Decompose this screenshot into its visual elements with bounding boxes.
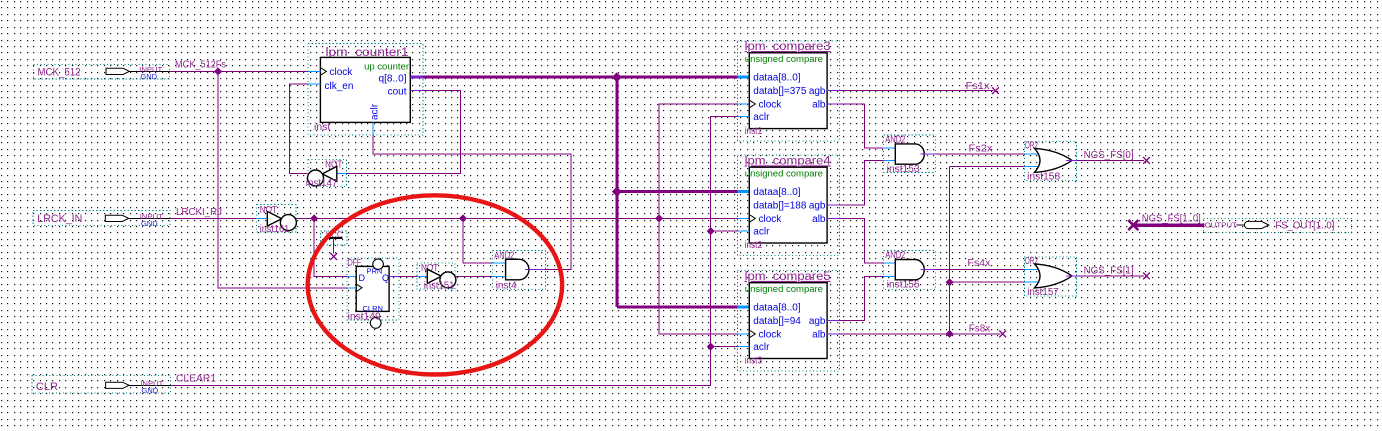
dangling x below VCC (330, 253, 337, 260)
wire to compare5 aclr (711, 346, 738, 348)
wire cout to NOT inst147 input (346, 90, 460, 173)
wire CLEAR1 (171, 117, 738, 386)
svg-text:NGS_FS[1]: NGS_FS[1] (1084, 266, 1134, 277)
svg-text:LRCK_IN: LRCK_IN (37, 213, 82, 225)
wire compare5 agb to AND155 in2 (839, 276, 883, 320)
svg-text:clk_en: clk_en (325, 81, 354, 92)
bus junction top (612, 72, 622, 82)
wire LRCKI_RJ to compare4 clock (296, 217, 737, 219)
svg-text:lpm_compare3: lpm_compare3 (745, 41, 831, 53)
wire Fs8x from compare5 alb (839, 333, 1000, 335)
svg-text:inst1: inst1 (745, 126, 763, 137)
input pin CLR (32, 375, 171, 393)
bus junction middle (612, 187, 622, 197)
AND2 gate inst153 (884, 135, 936, 172)
OR2 gate inst158 (1024, 141, 1076, 180)
output pin FS_OUT[1..0] (1203, 218, 1351, 232)
svg-text:CLR: CLR (36, 381, 58, 393)
wire compare4 agb to AND153 in2 (839, 160, 883, 205)
compare4 clock stub (738, 217, 750, 219)
svg-text:aclr: aclr (753, 112, 770, 123)
lpm_compare4 inst2 (737, 155, 839, 255)
svg-text:Fs2x: Fs2x (969, 144, 993, 155)
svg-text:aclr: aclr (753, 342, 770, 353)
svg-text:clock: clock (759, 99, 783, 110)
wire from MCK junction down to DFF clock (218, 71, 347, 287)
wire Fs8x up to OR gates (949, 167, 951, 334)
compare4 dataa stub (738, 190, 750, 193)
wire to AND inst4 upper input (463, 218, 493, 263)
input pin LRCK_IN (33, 210, 170, 225)
svg-text:inst158: inst158 (1027, 172, 1060, 183)
svg-text:inst2: inst2 (745, 240, 763, 251)
lpm_compare3 inst1 (737, 41, 839, 141)
svg-text:unsigned compare: unsigned compare (745, 54, 823, 65)
wire NOT151 to AND inst4 lower input (456, 275, 493, 277)
compare3 dataa stub (738, 76, 750, 79)
svg-text:MCK_512: MCK_512 (38, 67, 81, 79)
svg-text:Fs4x: Fs4x (967, 258, 990, 269)
svg-text:inst157: inst157 (1027, 287, 1059, 298)
svg-text:GND: GND (140, 72, 157, 81)
red ellipse annotation (308, 195, 562, 374)
counter cout output stub (410, 89, 423, 91)
svg-text:inst: inst (314, 122, 331, 133)
wire to compare4 aclr (711, 230, 738, 232)
svg-text:dataa[8..0]: dataa[8..0] (753, 73, 800, 84)
svg-text:unsigned compare: unsigned compare (745, 169, 823, 180)
junction OR157 branch (946, 278, 954, 286)
bus branch to compare5 dataa (617, 306, 738, 309)
wire NGS_FS[1] (1077, 275, 1145, 277)
OR2 gate inst157 (1024, 257, 1076, 296)
counter clk_en stub (308, 83, 320, 85)
counter q output stub (410, 76, 423, 79)
wire Fs4x (935, 269, 1024, 271)
svg-text:q[8..0]: q[8..0] (379, 74, 407, 85)
junction CLEAR at compare4 aclr (707, 227, 715, 235)
svg-text:PRN: PRN (367, 267, 383, 276)
dangling x Fs1x (992, 87, 999, 94)
svg-text:up counter: up counter (364, 62, 409, 73)
svg-text:inst4: inst4 (496, 281, 517, 292)
counter clock stub (308, 70, 320, 72)
svg-text:clock: clock (759, 329, 783, 340)
svg-text:inst3: inst3 (745, 356, 763, 367)
wire NGS_FS[0] (1077, 159, 1145, 161)
wire to OR157 in2 (950, 281, 1025, 283)
D flip-flop inst149 (347, 258, 399, 320)
bus branch to compare4 dataa (617, 190, 738, 193)
svg-text:alb: alb (812, 214, 826, 225)
wire LRCK to NOT inst161 (170, 217, 256, 219)
svg-text:inst161: inst161 (260, 224, 290, 235)
wire Fs1x from compare3 agb (839, 90, 993, 92)
svg-text:aclr: aclr (370, 103, 381, 120)
svg-text:dataa[8..0]: dataa[8..0] (753, 303, 800, 314)
svg-text:agb: agb (809, 86, 826, 97)
svg-text:alb: alb (812, 329, 826, 340)
svg-text:inst151: inst151 (424, 281, 455, 292)
svg-text:cout: cout (388, 86, 407, 97)
svg-text:FS_OUT[1..0]: FS_OUT[1..0] (1275, 219, 1334, 231)
NOT gate inst161 (257, 205, 297, 232)
svg-text:inst153: inst153 (887, 164, 920, 175)
compare3 clock stub (738, 103, 750, 105)
wire to compare3 clock (659, 104, 737, 218)
wire to compare5 clock (659, 218, 737, 334)
wire Fs2x (935, 153, 1024, 155)
svg-text:unsigned compare: unsigned compare (745, 284, 823, 295)
svg-text:GND: GND (142, 386, 159, 395)
svg-text:inst147: inst147 (306, 178, 338, 189)
dangling x NGS_FS[0] (1143, 157, 1150, 164)
svg-text:D: D (359, 273, 366, 283)
compare5 clock stub (738, 333, 750, 335)
wire DFF Q to NOT inst151 (399, 275, 417, 277)
bus q[8..0] to compare3 dataa (423, 76, 738, 79)
wire to DFF D input (314, 218, 347, 276)
junction LRCK at DFF branch (310, 214, 318, 222)
svg-text:Fs1x: Fs1x (966, 81, 990, 92)
dangling x Fs8x (999, 331, 1006, 338)
counter aclr stub (372, 122, 374, 135)
input pin MCK_512 (33, 65, 169, 79)
lpm_counter U inst (308, 44, 423, 136)
svg-text:LRCKI_RJ: LRCKI_RJ (176, 207, 222, 218)
svg-text:NGS_FS[0]: NGS_FS[0] (1084, 150, 1134, 161)
svg-text:dataa[8..0]: dataa[8..0] (753, 187, 800, 198)
svg-text:Fs8x: Fs8x (969, 324, 991, 335)
svg-text:agb: agb (809, 316, 826, 327)
svg-text:alb: alb (812, 99, 826, 110)
svg-text:aclr: aclr (753, 227, 770, 238)
compare3 aclr stub wire (738, 116, 750, 118)
wire counter aclr to AND inst4 output (373, 135, 571, 269)
wire to OR158 in2 (950, 166, 1025, 168)
wire compare3 alb to AND153 in1 (839, 104, 883, 148)
svg-text:clock: clock (330, 67, 354, 78)
bus vertical segment (615, 77, 618, 307)
svg-text:datab[]=94: datab[]=94 (753, 316, 801, 327)
wire compare4 alb to AND155 in1 (839, 218, 883, 263)
svg-text:datab[]=375: datab[]=375 (753, 86, 807, 97)
NOT gate inst147 (mirrored) (308, 160, 347, 187)
AND2 gate inst4 (493, 251, 546, 290)
junction LRCK at compare clock branch (655, 214, 663, 222)
svg-text:Q: Q (382, 273, 389, 283)
dangling x NGS_FS[1] (1143, 273, 1150, 280)
NOT gate inst151 (417, 263, 455, 289)
wire MCK_512Fs (169, 70, 308, 72)
svg-text:clock: clock (759, 214, 783, 225)
bus NGS_FS[1..0] to output pin (1128, 220, 1138, 230)
junction LRCK at AND4 branch (459, 214, 467, 222)
AND2 gate inst155 (884, 251, 936, 290)
svg-text:agb: agb (809, 201, 826, 212)
svg-text:GND: GND (141, 219, 158, 228)
svg-text:lpm_compare4: lpm_compare4 (745, 155, 832, 167)
junction on MCK_512Fs wire (214, 67, 222, 75)
svg-text:NGS_FS[1..0]: NGS_FS[1..0] (1142, 214, 1201, 225)
wire NOT147 output to counter clk_en (290, 84, 308, 173)
svg-text:inst149: inst149 (348, 312, 381, 323)
svg-text:OUTPUT: OUTPUT (1205, 220, 1238, 229)
svg-text:datab[]=188: datab[]=188 (753, 201, 807, 212)
junction Fs8x branch (946, 330, 954, 338)
power VCC (321, 231, 348, 245)
junction CLEAR at compare5 aclr (707, 343, 715, 351)
svg-text:lpm_compare5: lpm_compare5 (745, 271, 831, 283)
svg-text:CLEAR1: CLEAR1 (176, 373, 216, 384)
compare5 dataa stub (738, 306, 750, 309)
lpm_compare5 inst3 (737, 271, 839, 371)
svg-text:inst155: inst155 (887, 280, 920, 291)
